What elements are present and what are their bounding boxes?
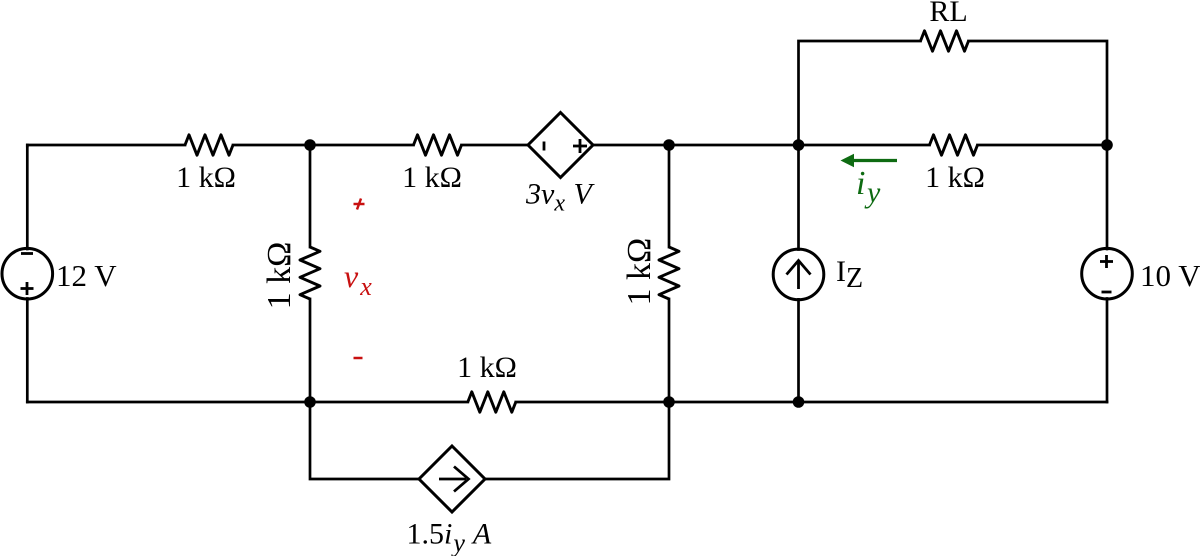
svg-text:1 kΩ: 1 kΩ: [621, 238, 658, 306]
svg-text:1 kΩ: 1 kΩ: [925, 161, 985, 194]
svg-text:1 kΩ: 1 kΩ: [457, 351, 517, 384]
svg-text:3vx V: 3vx V: [525, 178, 595, 217]
svg-text:1 kΩ: 1 kΩ: [261, 242, 298, 310]
svg-text:12 V: 12 V: [56, 258, 117, 293]
svg-text:IZ: IZ: [836, 255, 863, 294]
svg-text:1 kΩ: 1 kΩ: [402, 161, 462, 194]
svg-text:RL: RL: [929, 0, 967, 28]
svg-text:1.5iy A: 1.5iy A: [407, 518, 492, 556]
svg-text:10 V: 10 V: [1140, 258, 1200, 293]
svg-text:1 kΩ: 1 kΩ: [176, 161, 236, 194]
svg-text:vx: vx: [344, 258, 372, 301]
svg-text:iy: iy: [856, 165, 881, 209]
